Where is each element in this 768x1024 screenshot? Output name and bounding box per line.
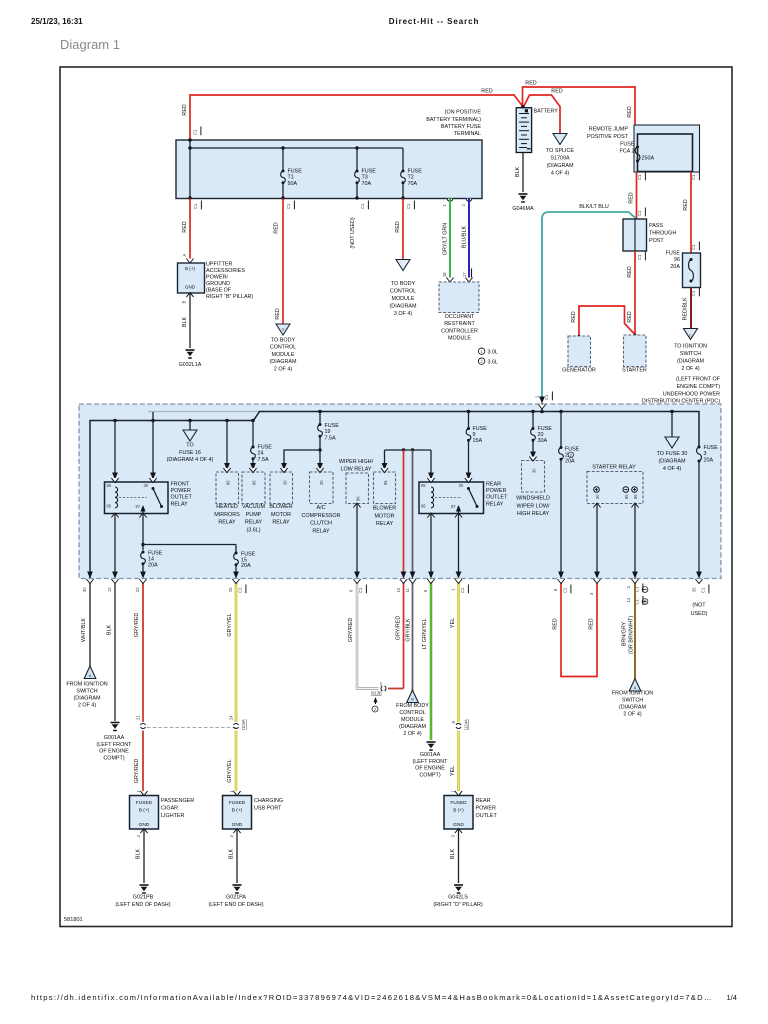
svg-text:OF ENGINE: OF ENGINE (415, 766, 445, 772)
svg-text:G001AA: G001AA (420, 752, 441, 758)
svg-text:B: B (411, 698, 414, 702)
svg-text:FROM IGNITION: FROM IGNITION (66, 682, 107, 688)
svg-text:POWER: POWER (171, 488, 191, 494)
svg-text:HIGH RELAY: HIGH RELAY (517, 511, 550, 517)
svg-text:TO SPLICE: TO SPLICE (546, 148, 574, 154)
svg-text:C1: C1 (691, 244, 696, 250)
svg-text:3: 3 (704, 451, 707, 457)
svg-text:19: 19 (325, 429, 331, 435)
svg-text:A: A (89, 674, 92, 678)
svg-text:T1: T1 (288, 175, 294, 181)
svg-text:GRY/RED: GRY/RED (134, 759, 140, 784)
svg-text:(NOT: (NOT (692, 603, 706, 609)
svg-text:RESTRAINT: RESTRAINT (444, 321, 475, 327)
svg-text:SWITCH: SWITCH (622, 698, 643, 704)
svg-text:FUSE: FUSE (258, 445, 273, 451)
svg-text:POST: POST (649, 238, 664, 244)
svg-text:2 OF 4): 2 OF 4) (681, 366, 699, 372)
svg-text:RED: RED (627, 311, 633, 322)
svg-text:70A: 70A (362, 181, 372, 187)
svg-text:MOTOR: MOTOR (271, 512, 291, 518)
svg-text:TO: TO (186, 443, 193, 449)
svg-text:POWER: POWER (486, 488, 506, 494)
svg-text:G046MA: G046MA (512, 206, 534, 212)
svg-text:BATTERY TERMINAL): BATTERY TERMINAL) (426, 117, 481, 123)
svg-text:GROUND: GROUND (206, 281, 230, 287)
svg-text:FROM IGNITION: FROM IGNITION (612, 691, 653, 697)
svg-text:C: C (689, 334, 692, 338)
svg-text:FROM BODY: FROM BODY (396, 703, 429, 709)
svg-text:C1: C1 (637, 210, 642, 216)
svg-text:FUSE: FUSE (362, 168, 377, 174)
svg-text:RELAY: RELAY (272, 520, 290, 526)
svg-text:C1: C1 (238, 587, 243, 593)
svg-text:CIGAR: CIGAR (161, 806, 178, 812)
svg-text:RED: RED (551, 89, 562, 95)
svg-text:RED: RED (571, 311, 577, 322)
svg-text:WIPER LOW/: WIPER LOW/ (517, 503, 550, 509)
svg-text:18: 18 (442, 272, 447, 277)
svg-text:(LEFT END OF DASH): (LEFT END OF DASH) (115, 902, 170, 908)
svg-text:30: 30 (319, 480, 324, 485)
svg-text:GND: GND (139, 822, 150, 828)
svg-text:85: 85 (383, 480, 388, 485)
svg-text:SWITCH: SWITCH (76, 689, 97, 695)
svg-text:FUSE: FUSE (704, 445, 719, 451)
svg-text:581801: 581801 (64, 917, 83, 923)
svg-text:RED: RED (629, 192, 635, 203)
svg-text:RED: RED (553, 618, 559, 629)
svg-text:I124A: I124A (464, 719, 469, 730)
svg-text:FUSED: FUSED (229, 800, 246, 806)
svg-text:70A: 70A (408, 181, 418, 187)
svg-text:I013B: I013B (371, 691, 382, 696)
svg-text:RELAY: RELAY (245, 520, 263, 526)
svg-text:C1: C1 (460, 587, 465, 593)
svg-text:30: 30 (595, 494, 600, 499)
svg-text:2: 2 (570, 454, 572, 458)
svg-text:BATTERY FUSE: BATTERY FUSE (441, 124, 482, 130)
svg-text:STARTER: STARTER (622, 367, 647, 373)
svg-text:G001AA: G001AA (104, 735, 125, 741)
svg-text:G042LS: G042LS (448, 895, 468, 901)
svg-text:RED: RED (274, 222, 280, 233)
svg-text:CONTROL: CONTROL (399, 710, 425, 716)
svg-text:YEL: YEL (450, 766, 456, 776)
svg-text:85: 85 (107, 483, 112, 488)
svg-text:20A: 20A (670, 264, 680, 270)
svg-text:(OR BRN/WHT): (OR BRN/WHT) (629, 616, 635, 655)
svg-text:14: 14 (626, 597, 631, 602)
svg-text:REAR: REAR (476, 798, 491, 804)
svg-text:RELAY: RELAY (218, 520, 236, 526)
svg-text:B (+): B (+) (139, 808, 150, 814)
svg-text:30: 30 (532, 468, 537, 473)
svg-text:2 OF 4): 2 OF 4) (274, 366, 292, 372)
svg-text:3.0L: 3.0L (488, 350, 499, 356)
svg-text:BLK: BLK (229, 849, 235, 860)
svg-text:SWITCH: SWITCH (680, 351, 701, 357)
svg-text:(RIGHT “D” PILLAR): (RIGHT “D” PILLAR) (433, 902, 483, 908)
svg-text:17: 17 (462, 272, 467, 277)
svg-text:TERMINAL: TERMINAL (454, 131, 481, 137)
svg-text:87: 87 (135, 504, 140, 509)
svg-text:RED: RED (481, 89, 492, 95)
svg-text:RELAY: RELAY (486, 501, 504, 507)
svg-text:UNDERHOOD POWER: UNDERHOOD POWER (663, 392, 720, 398)
svg-text:20A: 20A (148, 562, 158, 568)
svg-text:86: 86 (633, 494, 638, 499)
svg-text:BLK: BLK (515, 167, 521, 178)
svg-text:ENGINE COMPT): ENGINE COMPT) (677, 384, 721, 390)
svg-text:GRY/RED: GRY/RED (134, 613, 140, 638)
svg-text:RELAY: RELAY (376, 521, 394, 527)
svg-text:86: 86 (226, 480, 231, 485)
svg-text:LIGHTER: LIGHTER (161, 813, 184, 819)
svg-text:10: 10 (396, 587, 401, 592)
svg-text:FUSE: FUSE (666, 251, 681, 257)
svg-text:FUSE: FUSE (148, 551, 163, 557)
svg-text:85: 85 (624, 494, 629, 499)
svg-text:GRY/YEL: GRY/YEL (227, 613, 233, 636)
svg-text:CONTROL: CONTROL (270, 345, 296, 351)
svg-text:(ON POSITIVE: (ON POSITIVE (445, 110, 482, 116)
svg-text:12: 12 (107, 587, 112, 592)
svg-text:(DIAGRAM: (DIAGRAM (659, 459, 686, 465)
svg-text:RELAY: RELAY (171, 501, 189, 507)
svg-text:30A: 30A (538, 438, 548, 444)
svg-text:FUSED: FUSED (450, 800, 467, 806)
svg-text:B (+): B (+) (185, 266, 196, 271)
svg-text:POWER: POWER (476, 806, 496, 812)
svg-text:CONTROLLER: CONTROLLER (441, 328, 478, 334)
svg-text:LT GRN/YEL: LT GRN/YEL (422, 619, 428, 650)
svg-text:B: B (182, 301, 187, 304)
svg-text:(NOT USED): (NOT USED) (350, 217, 356, 249)
svg-text:B (+): B (+) (453, 808, 464, 814)
svg-text:OUTLET: OUTLET (476, 813, 498, 819)
svg-text:RED: RED (182, 104, 188, 115)
svg-text:30: 30 (143, 483, 148, 488)
svg-text:RED: RED (627, 266, 633, 277)
svg-text:MOTOR: MOTOR (375, 513, 395, 519)
svg-text:(LEFT FRONT: (LEFT FRONT (97, 742, 133, 748)
svg-text:C1: C1 (701, 587, 706, 593)
svg-text:FUSE: FUSE (325, 423, 340, 429)
svg-text:20A: 20A (241, 563, 251, 569)
svg-text:86: 86 (252, 480, 257, 485)
svg-text:C1: C1 (637, 174, 642, 180)
svg-text:PUMP: PUMP (246, 512, 262, 518)
svg-text:RED: RED (589, 618, 595, 629)
svg-text:USED): USED) (691, 611, 708, 617)
svg-text:2 OF 4): 2 OF 4) (403, 731, 421, 737)
svg-text:G032L1A: G032L1A (179, 362, 202, 368)
svg-text:(DIAGRAM: (DIAGRAM (74, 696, 101, 702)
svg-text:GND: GND (185, 285, 196, 290)
svg-text:3 OF 4): 3 OF 4) (394, 311, 412, 317)
svg-text:STARTER RELAY: STARTER RELAY (592, 465, 636, 471)
svg-text:(DIAGRAM: (DIAGRAM (399, 724, 426, 730)
svg-text:REAR: REAR (486, 482, 501, 488)
svg-text:C1: C1 (544, 394, 549, 400)
svg-text:RED: RED (627, 106, 633, 117)
svg-text:MODULE: MODULE (391, 296, 414, 302)
svg-text:15A: 15A (473, 438, 483, 444)
svg-text:C1: C1 (193, 203, 198, 209)
svg-text:25: 25 (228, 587, 233, 592)
svg-text:ACCESSORIES: ACCESSORIES (206, 268, 245, 274)
svg-text:86: 86 (107, 504, 112, 509)
svg-text:G021PB: G021PB (133, 895, 154, 901)
svg-text:COMPT): COMPT) (103, 755, 124, 761)
svg-text:GRY/LT GRN: GRY/LT GRN (443, 223, 449, 255)
svg-text:Diagram 1: Diagram 1 (60, 37, 120, 52)
svg-text:87: 87 (451, 504, 456, 509)
svg-text:30: 30 (458, 483, 463, 488)
svg-text:20A: 20A (565, 459, 575, 465)
svg-text:VACUUM: VACUUM (242, 504, 265, 510)
svg-text:I103A: I103A (241, 719, 246, 730)
svg-text:22: 22 (135, 587, 140, 592)
svg-text:UPFITTER: UPFITTER (206, 262, 232, 268)
svg-text:G: G (282, 328, 285, 332)
svg-text:30: 30 (82, 587, 87, 592)
svg-text:CLUTCH: CLUTCH (310, 521, 332, 527)
svg-text:21: 21 (136, 715, 141, 720)
svg-text:TO BODY: TO BODY (271, 338, 296, 344)
svg-text:PASSENGER: PASSENGER (161, 798, 194, 804)
svg-text:C1: C1 (406, 203, 411, 209)
svg-text:B (+): B (+) (232, 808, 243, 814)
svg-text:MIRRORS: MIRRORS (214, 512, 240, 518)
svg-text:MODULE: MODULE (448, 336, 471, 342)
svg-text:TO BODY: TO BODY (391, 281, 416, 287)
svg-text:85: 85 (421, 483, 426, 488)
svg-text:4 OF 4): 4 OF 4) (663, 466, 681, 472)
svg-text:GND: GND (232, 822, 243, 828)
svg-text:BLK: BLK (136, 849, 142, 860)
svg-text:POSITIVE POST: POSITIVE POST (587, 134, 629, 140)
svg-text:RED/BLK: RED/BLK (683, 297, 689, 320)
svg-text:C1: C1 (360, 203, 365, 209)
svg-text:7.5A: 7.5A (258, 457, 269, 463)
svg-text:BLK: BLK (107, 625, 113, 636)
svg-text:C1: C1 (563, 587, 568, 593)
svg-text:7.5A: 7.5A (325, 435, 336, 441)
svg-text:2 OF 4): 2 OF 4) (78, 703, 96, 709)
svg-text:TO FUSE 30: TO FUSE 30 (657, 451, 688, 457)
svg-text:OUTLET: OUTLET (486, 495, 508, 501)
svg-text:(3.6L): (3.6L) (246, 527, 260, 533)
svg-text:35: 35 (692, 587, 697, 592)
svg-text:BLK: BLK (450, 849, 456, 860)
svg-text:FRONT: FRONT (171, 482, 190, 488)
svg-text:30: 30 (283, 480, 288, 485)
svg-text:THROUGH: THROUGH (649, 231, 676, 237)
svg-text:REMOTE JUMP: REMOTE JUMP (589, 127, 629, 133)
svg-text:GRY/BLK: GRY/BLK (406, 618, 412, 642)
svg-text:USB PORT: USB PORT (254, 806, 282, 812)
svg-text:(DIAGRAM: (DIAGRAM (270, 359, 297, 365)
svg-text:96: 96 (674, 257, 680, 263)
svg-text:FUSE: FUSE (288, 168, 303, 174)
svg-text:OCCUPANT: OCCUPANT (445, 314, 476, 320)
svg-text:3.6L: 3.6L (488, 360, 499, 366)
svg-text:RED: RED (683, 199, 689, 210)
svg-text:(DIAGRAM: (DIAGRAM (390, 304, 417, 310)
svg-text:(LEFT END OF DASH): (LEFT END OF DASH) (208, 902, 263, 908)
svg-text:C1: C1 (637, 254, 642, 260)
svg-text:WINDSHIELD: WINDSHIELD (516, 496, 550, 502)
svg-text:WHT/BLK: WHT/BLK (81, 618, 87, 642)
svg-text:50A: 50A (288, 181, 298, 187)
svg-text:A: A (182, 254, 187, 257)
svg-text:FUSE: FUSE (620, 142, 635, 148)
svg-text:https://dh.identifix.com/Infor: https://dh.identifix.com/InformationAvai… (31, 993, 713, 1002)
svg-text:1/4: 1/4 (726, 993, 737, 1002)
svg-text:BLK: BLK (182, 317, 188, 328)
svg-text:TO IGNITION: TO IGNITION (674, 344, 707, 350)
svg-text:HEATED: HEATED (216, 504, 238, 510)
svg-text:(LEFT FRONT: (LEFT FRONT (413, 759, 449, 765)
svg-text:GRY/YEL: GRY/YEL (227, 759, 233, 782)
svg-text:GND: GND (453, 822, 464, 828)
svg-text:G021PA: G021PA (226, 895, 246, 901)
svg-text:RIGHT “B” PILLAR): RIGHT “B” PILLAR) (206, 294, 253, 300)
svg-text:FUSE: FUSE (408, 168, 423, 174)
svg-text:GRY/RED: GRY/RED (348, 618, 354, 643)
svg-text:MODULE: MODULE (401, 717, 424, 723)
svg-text:4 OF 4): 4 OF 4) (551, 171, 569, 177)
svg-text:GENERATOR: GENERATOR (562, 367, 596, 373)
svg-text:OF ENGINE: OF ENGINE (99, 749, 129, 755)
svg-text:RED: RED (275, 308, 281, 319)
svg-text:CHARGING: CHARGING (254, 798, 283, 804)
svg-text:(DIAGRAM: (DIAGRAM (677, 359, 704, 365)
svg-text:86: 86 (356, 496, 361, 501)
svg-text:WIPER HIGH/: WIPER HIGH/ (339, 459, 374, 465)
svg-text:Direct-Hit -- Search: Direct-Hit -- Search (389, 17, 479, 26)
svg-text:FUSED: FUSED (136, 800, 153, 806)
svg-text:LOW RELAY: LOW RELAY (340, 467, 371, 473)
svg-text:20A: 20A (704, 457, 714, 463)
svg-text:11: 11 (405, 588, 410, 593)
svg-text:BATTERY: BATTERY (534, 109, 559, 115)
svg-text:24: 24 (258, 451, 264, 457)
svg-text:RED: RED (182, 221, 188, 232)
svg-text:A: A (634, 686, 637, 690)
svg-text:(DIAGRAM: (DIAGRAM (547, 163, 574, 169)
svg-text:BLU/BLK: BLU/BLK (462, 226, 468, 249)
svg-text:RED: RED (525, 81, 536, 87)
svg-text:(DIAGRAM 4 OF 4): (DIAGRAM 4 OF 4) (167, 457, 214, 463)
svg-text:YEL: YEL (450, 618, 456, 628)
svg-text:C1: C1 (193, 129, 198, 135)
svg-text:T3: T3 (362, 175, 368, 181)
svg-text:T2: T2 (408, 175, 414, 181)
svg-text:86: 86 (421, 504, 426, 509)
svg-text:CONTROL: CONTROL (390, 289, 416, 295)
svg-text:RELAY: RELAY (312, 528, 330, 534)
svg-text:FUSE 16: FUSE 16 (179, 450, 201, 456)
svg-text:BLOWER: BLOWER (269, 504, 292, 510)
svg-text:250A: 250A (642, 156, 655, 162)
svg-text:POWER/: POWER/ (206, 274, 228, 280)
svg-text:(DIAGRAM: (DIAGRAM (619, 705, 646, 711)
svg-text:COMPT): COMPT) (419, 772, 440, 778)
svg-text:(BASE OF: (BASE OF (206, 287, 232, 293)
svg-text:(LEFT FRONT OF: (LEFT FRONT OF (676, 377, 721, 383)
svg-text:25/1/23, 16:31: 25/1/23, 16:31 (31, 17, 83, 26)
svg-text:A/C: A/C (317, 505, 326, 511)
svg-text:C1: C1 (358, 587, 363, 593)
svg-text:BLOWER: BLOWER (373, 506, 396, 512)
svg-text:C1: C1 (286, 203, 291, 209)
svg-text:BRN/GRY: BRN/GRY (622, 621, 628, 646)
svg-text:OUTLET: OUTLET (171, 495, 193, 501)
svg-text:PASS: PASS (649, 223, 663, 229)
svg-text:24: 24 (229, 715, 234, 720)
svg-text:MODULE: MODULE (271, 352, 294, 358)
svg-text:BLK/LT BLU: BLK/LT BLU (579, 204, 609, 210)
svg-text:RED: RED (395, 221, 401, 232)
svg-text:GRY/RED: GRY/RED (396, 616, 402, 641)
svg-text:S1709A: S1709A (550, 156, 570, 162)
svg-text:COMPRESSOR: COMPRESSOR (302, 513, 341, 519)
svg-text:2 OF 4): 2 OF 4) (623, 712, 641, 718)
svg-text:FCA 2: FCA 2 (620, 149, 635, 155)
